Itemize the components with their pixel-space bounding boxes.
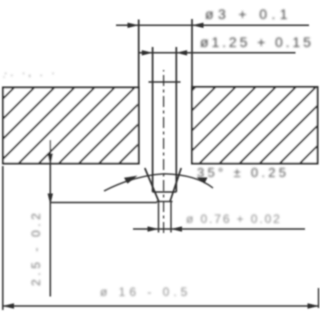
arc arrowhead left bbox=[124, 176, 138, 184]
arrow 2.5 bottom bbox=[48, 194, 53, 205]
svg-text:35° ± 0.25: 35° ± 0.25 bbox=[197, 165, 289, 180]
angle dimension arc bbox=[104, 174, 213, 191]
taper line right 35 deg bbox=[170, 168, 181, 202]
svg-text:ø1.25 + 0.15: ø1.25 + 0.15 bbox=[200, 34, 314, 50]
orifice exit plane line bbox=[157, 201, 173, 203]
internal step line bbox=[153, 191, 177, 193]
svg-text:ø 0.76 + 0.02: ø 0.76 + 0.02 bbox=[186, 212, 282, 226]
svg-text:ø3 + 0.1: ø3 + 0.1 bbox=[205, 6, 292, 22]
arrow right ø1.25 bbox=[176, 50, 187, 55]
plate left section outline bbox=[3, 88, 139, 164]
taper line left 35 deg bbox=[145, 168, 159, 202]
arrow 2.5 top bbox=[48, 154, 53, 167]
extension line right of ø3 hole bbox=[191, 19, 193, 87]
dimension line ø16 bbox=[2, 305, 319, 307]
svg-text:·̣. ·, . ·: ·̣. ·, . · bbox=[3, 68, 57, 79]
arrow left ø0.76 bbox=[148, 226, 159, 231]
nozzle bore wall left ø1.25 bbox=[152, 47, 154, 192]
plate left section hatching bbox=[4, 89, 138, 163]
svg-text:ø 16 - 0.5: ø 16 - 0.5 bbox=[100, 285, 191, 299]
arc arrowhead right bbox=[197, 177, 208, 183]
dimension line ø1.25 bbox=[140, 52, 296, 54]
centerline bbox=[163, 70, 165, 233]
dimension line ø3 bbox=[116, 24, 309, 26]
orifice extension line left bbox=[158, 202, 160, 233]
arrow ø16 right bbox=[308, 303, 320, 308]
plate right section hatching bbox=[193, 88, 317, 163]
arrow right ø3 bbox=[192, 23, 204, 28]
dimension line 2.5 vertical bbox=[49, 140, 51, 297]
dimension line ø0.76 bbox=[133, 228, 305, 230]
arrow ø16 left bbox=[3, 303, 15, 308]
svg-text:2.5 - 0.2: 2.5 - 0.2 bbox=[29, 210, 43, 286]
bore top end line bbox=[149, 81, 181, 83]
plate right section outline bbox=[192, 87, 318, 164]
arrow left ø1.25 bbox=[142, 50, 153, 55]
nozzle bore wall right ø1.25 bbox=[175, 47, 177, 192]
tip plane extension line bbox=[50, 202, 157, 204]
arrow left ø3 bbox=[128, 23, 139, 28]
extension line ø16 right bbox=[318, 288, 320, 308]
extension line left of ø3 hole bbox=[138, 20, 140, 88]
extension line ø16 left bbox=[2, 166, 4, 310]
arrow right ø0.76 bbox=[171, 226, 182, 231]
orifice extension line right bbox=[170, 202, 172, 233]
